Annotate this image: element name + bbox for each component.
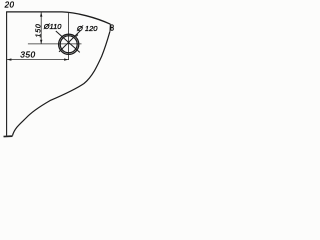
svg-text:20: 20	[4, 1, 15, 10]
label B	[111, 25, 113, 31]
horizontal dimension line 350	[7, 59, 69, 61]
svg-text:Ø 120: Ø 120	[76, 24, 98, 33]
arrowhead 150 top	[40, 12, 42, 16]
vertical centerline of flange	[68, 13, 70, 61]
svg-text:Ø110: Ø110	[43, 22, 62, 31]
flange outer circle	[59, 34, 79, 54]
base foot bar	[3, 135, 12, 137]
leader line for diameter 110	[56, 31, 80, 52]
vertical dimension line 150	[40, 13, 42, 44]
background paper	[0, 0, 116, 142]
leader line for diameter 120	[59, 31, 80, 52]
flange inner circle	[60, 36, 77, 53]
right rim edge	[109, 24, 111, 31]
arrowhead 150 bottom	[40, 40, 42, 44]
arrowhead of 120 leader at outer circle	[76, 34, 79, 38]
arrowhead 350 right	[64, 58, 68, 60]
main outer curve	[13, 32, 110, 136]
left wall line	[6, 12, 8, 136]
svg-text:150: 150	[35, 23, 42, 37]
svg-text:350: 350	[20, 50, 35, 60]
arrowhead 350 left	[7, 58, 11, 60]
top edge line with curve to right rim	[6, 12, 110, 24]
horizontal centerline of flange	[28, 43, 82, 45]
